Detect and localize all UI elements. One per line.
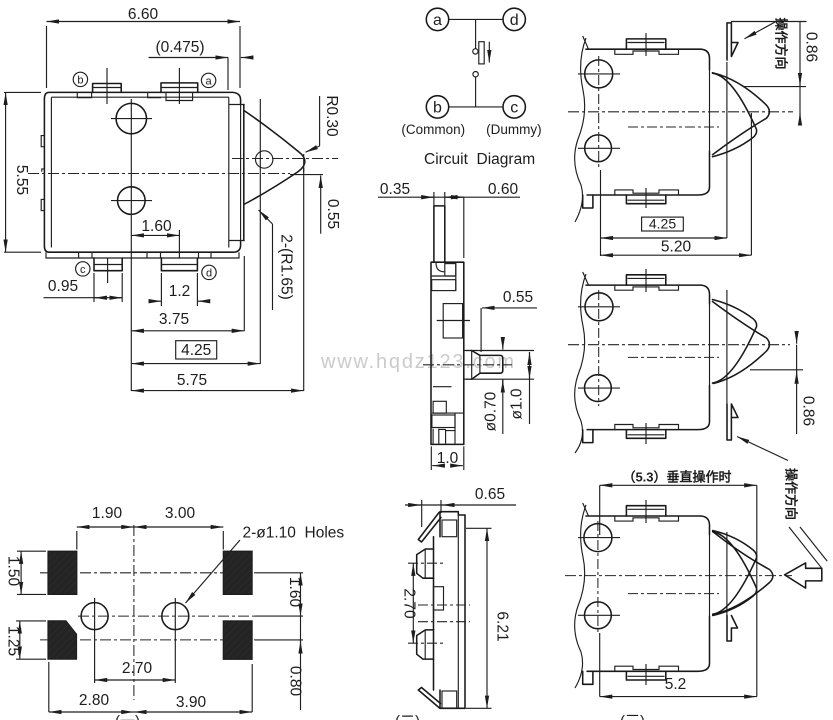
svg-text:1.90: 1.90 xyxy=(92,505,123,522)
dim 0.80 xyxy=(287,616,304,710)
dim (0.475) xyxy=(149,39,253,90)
dim 6.60 xyxy=(47,6,241,88)
dim 6.21 xyxy=(466,528,511,708)
bent lead bottom xyxy=(727,404,738,440)
bottom left foot xyxy=(583,671,593,684)
dim phi0.70 xyxy=(483,338,503,434)
svg-text:0.55: 0.55 xyxy=(503,289,533,306)
partial caption 1 xyxy=(115,713,140,720)
circles crosshair vertical xyxy=(597,521,599,634)
dim 2-(R1.65) xyxy=(259,210,295,310)
svg-text:操作方向: 操作方向 xyxy=(784,468,799,520)
extension lines through cone xyxy=(260,99,303,212)
svg-text:www.hqdz123.com: www.hqdz123.com xyxy=(320,351,516,373)
bottom terminal tab left (0.95 ref) xyxy=(94,258,122,271)
hole circle lower xyxy=(578,375,620,402)
svg-text:5.20: 5.20 xyxy=(661,239,692,256)
svg-text:3.00: 3.00 xyxy=(165,505,196,522)
svg-text:(一): (一) xyxy=(115,713,140,720)
bump centre lines xyxy=(408,563,470,643)
top tab xyxy=(615,275,679,290)
terminal d xyxy=(503,8,525,30)
partial caption 3 xyxy=(620,713,645,720)
svg-text:2-ø1.10 Holes: 2-ø1.10 Holes xyxy=(243,525,345,542)
actuation arrow xyxy=(488,42,490,63)
svg-text:2.70: 2.70 xyxy=(122,660,153,677)
body centre line xyxy=(628,593,719,595)
body centre line xyxy=(28,174,323,175)
hole circle upper xyxy=(111,103,152,133)
dim 1.60 xyxy=(131,218,179,235)
svg-text:1.0: 1.0 xyxy=(437,450,459,467)
svg-text:0.95: 0.95 xyxy=(48,278,78,295)
hole circle lower xyxy=(578,602,620,629)
pad top-right xyxy=(223,551,252,594)
wire contact to bottom xyxy=(475,77,477,107)
svg-text:Circuit Diagram: Circuit Diagram xyxy=(424,151,535,168)
svg-text:0.35: 0.35 xyxy=(380,181,410,198)
actuator cone pressed positions xyxy=(710,531,773,617)
tab centerline xyxy=(645,269,647,444)
svg-text:c: c xyxy=(510,100,518,117)
cone centre line xyxy=(565,575,792,577)
svg-text:0.60: 0.60 xyxy=(488,181,519,198)
internal details lower xyxy=(432,387,464,444)
dim R0.30 xyxy=(306,95,341,152)
label cao zuo fang xiang with leader xyxy=(731,17,807,69)
label cao zuo fang xiang with leader xyxy=(737,437,827,569)
label 2-phi1.10 holes xyxy=(186,525,345,604)
top terminal tab right xyxy=(161,83,198,93)
svg-text:1.25: 1.25 xyxy=(5,626,22,656)
dim 0.35 / 0.60 xyxy=(378,181,520,258)
circles crosshair vertical xyxy=(598,290,600,406)
contact pivot xyxy=(473,49,478,54)
hole circle upper xyxy=(578,524,620,552)
top terminal box xyxy=(442,520,457,537)
face line xyxy=(726,532,728,615)
broken edge wavy line xyxy=(575,272,589,453)
dim 0.86 lower xyxy=(750,336,817,434)
terminal id circle c xyxy=(76,262,90,276)
svg-text:4.25: 4.25 xyxy=(181,342,211,359)
dim 2.70 xyxy=(95,634,176,683)
svg-text:2.70: 2.70 xyxy=(401,588,418,619)
dim 5.75 xyxy=(131,168,303,391)
terminal id circle a xyxy=(201,73,215,87)
bent lead bottom left xyxy=(418,688,440,709)
dim 4.25 boxed xyxy=(131,212,260,364)
tab centerline xyxy=(645,33,647,208)
big operation direction arrow xyxy=(785,563,822,588)
hole circle lower xyxy=(111,187,152,215)
body outline xyxy=(431,262,464,444)
terminal id circle d xyxy=(202,265,216,279)
svg-text:(Dummy): (Dummy) xyxy=(486,122,542,137)
svg-text:(三): (三) xyxy=(620,713,645,720)
dim (5.3) vertical operation xyxy=(600,470,757,577)
terminal a xyxy=(426,8,448,30)
centre line top pads xyxy=(40,572,303,574)
svg-text:(Common): (Common) xyxy=(401,122,465,137)
dim 4.25 boxed xyxy=(601,62,727,256)
centre line vertical xyxy=(133,525,135,700)
svg-text:0.65: 0.65 xyxy=(475,486,505,503)
actuator pin circle xyxy=(256,151,273,168)
terminal c xyxy=(503,96,525,118)
broken edge wavy line xyxy=(575,503,589,688)
svg-text:0.55: 0.55 xyxy=(324,199,341,229)
svg-text:4.25: 4.25 xyxy=(649,216,676,232)
circles crosshair vertical xyxy=(598,56,600,170)
svg-text:R0.30: R0.30 xyxy=(323,95,340,137)
svg-text:5.75: 5.75 xyxy=(177,372,207,389)
actuator cone side free xyxy=(710,300,770,386)
wire a-d xyxy=(449,18,503,20)
hole circle upper xyxy=(578,293,620,321)
hole circle upper xyxy=(578,60,620,88)
pad bottom-right xyxy=(223,621,252,659)
svg-text:d: d xyxy=(510,12,519,29)
push rod xyxy=(464,351,503,380)
dim 0.65 xyxy=(405,486,516,527)
title circuit diagram xyxy=(424,151,535,168)
svg-text:c: c xyxy=(80,264,86,276)
bottom tab xyxy=(615,666,679,680)
dim 1.0 bottom xyxy=(431,446,464,470)
svg-text:d: d xyxy=(206,267,212,279)
actuator cone xyxy=(241,105,305,241)
dim 2.70 xyxy=(401,563,418,643)
hole left xyxy=(81,598,108,634)
dim 2.80 xyxy=(49,662,134,712)
internal details top xyxy=(432,263,456,291)
svg-text:6.60: 6.60 xyxy=(128,6,159,23)
centre line holes xyxy=(78,615,303,617)
svg-text:2.80: 2.80 xyxy=(79,692,110,709)
svg-text:ø1.0: ø1.0 xyxy=(509,388,526,419)
hole right xyxy=(162,598,189,634)
broken edge wavy line xyxy=(575,36,589,222)
pad bottom-left chamfered xyxy=(48,621,77,659)
bottom terminal box xyxy=(442,691,457,708)
bottom tab xyxy=(615,190,679,204)
bottom flange line xyxy=(46,252,239,258)
svg-text:6.21: 6.21 xyxy=(494,611,511,641)
svg-text:操作方向: 操作方向 xyxy=(774,17,789,69)
svg-text:3.75: 3.75 xyxy=(159,311,189,328)
body centre line xyxy=(628,126,719,128)
bent lead top xyxy=(727,23,738,60)
bottom left foot xyxy=(583,430,593,443)
bent lead top left xyxy=(418,513,441,543)
contact bump upper xyxy=(417,549,434,578)
bottom terminal tab right (1.2 ref) xyxy=(161,258,197,271)
dim 3.00 xyxy=(134,505,223,550)
dim 1.25 xyxy=(5,621,47,659)
switch body outline xyxy=(44,92,244,252)
contact bump lower xyxy=(417,630,434,659)
terminal id circle b xyxy=(73,72,87,86)
svg-text:1.50: 1.50 xyxy=(5,556,22,587)
dim 0.55 side xyxy=(321,176,341,234)
pad top-left xyxy=(48,551,77,594)
top tab xyxy=(615,39,679,54)
dim 5.20 xyxy=(601,113,752,256)
bottom left foot xyxy=(583,195,593,208)
dim 1.60 xyxy=(286,573,303,616)
body outline xyxy=(586,49,710,195)
cone centre line xyxy=(568,344,790,346)
dim 5.55 xyxy=(4,92,41,252)
wire b-c xyxy=(449,106,503,108)
svg-text:（5.3）垂直操作时: （5.3）垂直操作时 xyxy=(622,470,731,485)
bent lead pressed xyxy=(727,616,738,642)
lower contact xyxy=(473,72,478,77)
vertical crosshair through holes xyxy=(130,99,132,221)
svg-text:5.55: 5.55 xyxy=(13,165,30,195)
stem xyxy=(434,206,445,262)
svg-text:ø0.70: ø0.70 xyxy=(483,391,500,431)
wire from top to contact xyxy=(475,19,477,48)
svg-text:b: b xyxy=(77,74,83,86)
bottom tab xyxy=(615,425,679,439)
cone centre line xyxy=(568,111,793,113)
terminal b xyxy=(426,96,448,118)
svg-text:(0.475): (0.475) xyxy=(155,39,204,56)
dim 0.86 top xyxy=(743,22,820,125)
label dummy xyxy=(486,122,542,137)
centre line bottom pads xyxy=(40,639,303,641)
actuator cone side xyxy=(710,70,770,157)
face line xyxy=(726,290,728,404)
dim phi1.0 xyxy=(466,351,534,425)
watermark xyxy=(320,351,516,373)
svg-text:1.60: 1.60 xyxy=(141,218,172,235)
dim 1.90 xyxy=(77,505,134,550)
moving contact bar xyxy=(479,42,484,64)
svg-text:0.86: 0.86 xyxy=(803,32,820,62)
svg-text:2-(R1.65): 2-(R1.65) xyxy=(278,234,295,299)
dim 1.50 xyxy=(5,551,47,594)
svg-text:b: b xyxy=(433,100,442,117)
svg-text:5.2: 5.2 xyxy=(665,676,687,693)
body centre line xyxy=(628,356,719,358)
top terminal tab left xyxy=(93,84,122,93)
svg-text:(二): (二) xyxy=(395,713,420,720)
dim 0.55 rod xyxy=(481,289,537,352)
rod centre line xyxy=(423,364,512,366)
body slab xyxy=(434,512,466,709)
dim 5.2 xyxy=(600,576,757,697)
svg-text:a: a xyxy=(206,75,213,87)
top tab xyxy=(615,506,679,521)
svg-text:0.86: 0.86 xyxy=(800,396,817,426)
notch between bumps xyxy=(434,587,444,610)
left edge small tabs xyxy=(41,136,44,211)
actuator centre line xyxy=(232,158,338,160)
svg-text:1.2: 1.2 xyxy=(169,283,191,300)
top edge notches xyxy=(77,92,192,100)
tab centerlines xyxy=(107,68,179,283)
tab centerline xyxy=(645,500,647,685)
body outline xyxy=(586,516,710,671)
body outline xyxy=(586,285,710,430)
svg-text:a: a xyxy=(433,12,442,29)
label common xyxy=(401,122,465,137)
dim 3.90 xyxy=(134,664,252,712)
hole circle lower xyxy=(578,135,620,162)
dim 1.2 xyxy=(151,273,208,306)
partial caption 2 xyxy=(395,713,420,720)
svg-text:3.90: 3.90 xyxy=(176,694,207,711)
dim 0.95 xyxy=(44,273,123,302)
dim 3.75 xyxy=(131,221,244,391)
internal contact window upper xyxy=(437,304,470,338)
